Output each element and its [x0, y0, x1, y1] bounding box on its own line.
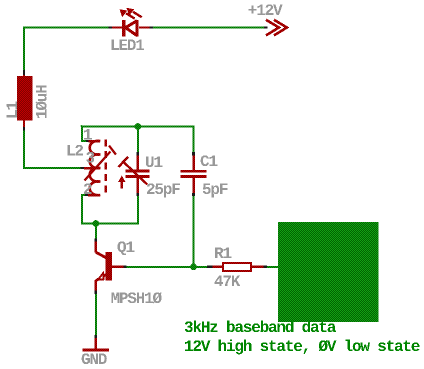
LED emission arrow 1: [119, 8, 141, 19]
wire C1 top: [193, 126, 195, 153]
label 47K: [215, 275, 241, 286]
arrow tee head: [109, 146, 116, 155]
wire C1 bottom to base node: [193, 196, 195, 267]
pin end markers (dark): [23, 26, 268, 338]
label R1: [215, 247, 231, 258]
wire pin left: [112, 26, 122, 28]
wire left vertical V+ to L1: [23, 27, 25, 71]
pin end U1 top: [137, 152, 140, 155]
variable arrow across coil: [85, 152, 111, 181]
+12V supply chevron: [266, 20, 287, 36]
node junction dot base / C1 / R1: [190, 263, 197, 270]
trimmer capacitor U1: [118, 155, 150, 193]
label L2: [68, 145, 83, 156]
pin label 2: [84, 183, 92, 194]
label LED1: [112, 39, 144, 50]
LED LED1: [112, 20, 150, 36]
emitter arrow (open): [98, 273, 104, 280]
cathode bar: [122, 20, 125, 36]
pin end L1 pin 1: [23, 70, 25, 75]
wire Q1 collector up: [95, 224, 97, 239]
label 10uH (rotated): [36, 85, 47, 118]
pin end LED1 anode: [109, 26, 113, 28]
collector pin: [95, 242, 98, 253]
wire pin right: [139, 26, 150, 28]
label 25pF: [147, 183, 180, 197]
resistor R1: [213, 263, 264, 271]
pin end L1 pin 2: [23, 127, 25, 131]
node junction dot tank bottom / collector: [92, 220, 99, 227]
pin end L2 pin 3: [81, 167, 85, 169]
capacitor C1: [181, 155, 207, 193]
label MPSH10: [111, 292, 161, 303]
wire L2 pin 2 drop: [82, 195, 85, 225]
label U1: [146, 156, 162, 167]
wire tank top: [81, 126, 194, 128]
pin 1 stub: [89, 140, 101, 143]
label C1: [201, 155, 218, 166]
base pin: [112, 266, 124, 269]
pin end L2 pin 2: [85, 194, 88, 196]
wire: [153, 27, 264, 29]
ground symbol: [83, 338, 110, 351]
body: [223, 263, 251, 271]
wire R1 to box: [267, 266, 278, 268]
adjust arrow shaft: [121, 182, 123, 189]
annotation line 2: [185, 339, 420, 354]
pin end Q1 collector: [95, 239, 98, 242]
pin end Q1 emitter: [95, 291, 98, 295]
wire Q1 emitter down: [95, 294, 97, 335]
plate top: [181, 170, 207, 173]
pin label 1: [84, 129, 92, 140]
trim diagonal: [124, 162, 148, 184]
pin 3 stub: [84, 167, 100, 170]
plate bottom: [181, 175, 207, 178]
pin top: [192, 155, 195, 170]
plate bottom: [126, 175, 150, 178]
pin bottom: [137, 178, 140, 193]
adjust arrow head: [118, 176, 125, 182]
pin end U1 bottom: [137, 193, 140, 196]
pin label 3: [86, 152, 94, 163]
pin end +12V supply: [264, 26, 267, 28]
pin end R1 left: [207, 266, 213, 268]
pin right: [252, 266, 264, 269]
stem: [95, 338, 98, 349]
wire: [23, 27, 109, 29]
pin bottom: [192, 178, 195, 193]
wire L2 pin 1 drop: [81, 126, 86, 142]
LED emission arrow 2: [133, 12, 142, 17]
pin end C1 bottom: [192, 193, 195, 196]
base bar: [106, 252, 113, 280]
pin end LED1 cathode: [149, 26, 153, 28]
wire U1 bottom: [137, 196, 139, 225]
pin top: [137, 155, 140, 169]
coil arcs: [90, 141, 101, 195]
pin end L2 pin 1: [86, 140, 89, 142]
label 5pF: [203, 183, 228, 197]
label +12V: [249, 4, 283, 15]
signal source block (green box): [278, 222, 379, 322]
pin end R1 right: [264, 266, 268, 268]
core dashed line: [105, 140, 108, 197]
emitter diagonal: [96, 275, 106, 281]
trim tee head: [119, 157, 129, 167]
wire Q1 base to R1: [127, 266, 208, 268]
wire top rail from corner to LED anode: [23, 27, 278, 336]
label L1 (rotated): [6, 102, 17, 118]
wire to L2 pin 3: [23, 167, 81, 169]
inductor L1: [17, 76, 33, 121]
plate top: [126, 170, 150, 173]
transistor Q1 MPSH10: [95, 242, 124, 291]
wire L1 bottom down: [23, 131, 25, 170]
label GND: [82, 353, 107, 364]
anode triangle: [126, 20, 138, 36]
pin left: [213, 266, 223, 269]
wire U1 top: [137, 127, 139, 153]
wire tank bottom: [81, 223, 139, 225]
emitter pin: [95, 280, 98, 291]
node junction dot tank top / U1: [134, 123, 141, 130]
pin 2 stub: [88, 194, 100, 197]
collector diagonal: [96, 252, 107, 258]
pin end GND: [95, 335, 98, 338]
transformer coil L2: [84, 140, 116, 197]
pin end Q1 base: [124, 266, 127, 268]
annotation line 1: [185, 320, 336, 332]
pin end C1 top: [192, 152, 195, 155]
label Q1: [118, 241, 135, 255]
bar: [83, 349, 110, 352]
L1 pins: [23, 75, 25, 77]
